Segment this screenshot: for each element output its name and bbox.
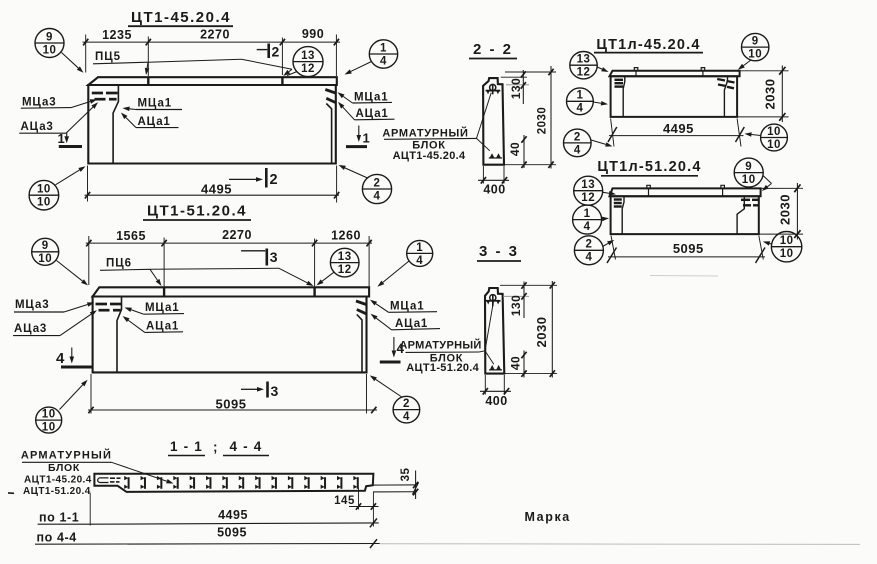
svg-text:9: 9	[745, 161, 752, 173]
svg-text:АЦТ1-45.20.4: АЦТ1-45.20.4	[24, 474, 92, 485]
svg-text:АРМАТУРНЫЙ: АРМАТУРНЫЙ	[399, 338, 481, 351]
svg-text:1 - 1: 1 - 1	[170, 439, 203, 454]
svg-text:10: 10	[42, 422, 56, 434]
svg-text:35: 35	[400, 468, 412, 482]
svg-text:АЦа1: АЦа1	[138, 116, 171, 128]
svg-text:2030: 2030	[537, 107, 549, 135]
svg-text:2: 2	[272, 44, 280, 60]
svg-text:АЦа1: АЦа1	[395, 318, 428, 330]
svg-text:4: 4	[585, 252, 592, 264]
svg-text:АЦа1: АЦа1	[146, 321, 179, 333]
svg-text:40: 40	[509, 356, 523, 370]
svg-text:2: 2	[574, 131, 581, 143]
svg-text:4: 4	[574, 144, 581, 156]
svg-text:4: 4	[584, 221, 591, 233]
svg-text:12: 12	[338, 264, 352, 276]
svg-text:1: 1	[584, 208, 591, 220]
svg-text:13: 13	[338, 251, 352, 263]
svg-text:400: 400	[485, 394, 507, 408]
svg-text:4495: 4495	[663, 121, 694, 136]
svg-text:9: 9	[46, 31, 53, 43]
svg-text:АЦТ1-51.20.4: АЦТ1-51.20.4	[23, 486, 91, 497]
svg-text:990: 990	[302, 27, 324, 41]
svg-text:1565: 1565	[116, 229, 146, 243]
svg-text:АЦТ1-45.20.4: АЦТ1-45.20.4	[393, 150, 466, 162]
svg-text:12: 12	[577, 67, 591, 79]
svg-text:10: 10	[742, 174, 756, 186]
svg-text:12: 12	[581, 192, 595, 204]
svg-text:ЦТ1-45.20.4: ЦТ1-45.20.4	[131, 9, 231, 26]
svg-text:3: 3	[271, 383, 279, 399]
svg-text:4495: 4495	[218, 508, 248, 522]
svg-text:4: 4	[380, 55, 387, 67]
svg-text:2 - 2: 2 - 2	[473, 41, 513, 58]
svg-text:по 4-4: по 4-4	[37, 530, 77, 544]
svg-text:10: 10	[43, 44, 57, 56]
svg-text:10: 10	[42, 409, 56, 421]
svg-text:400: 400	[483, 182, 505, 196]
svg-text:5095: 5095	[217, 526, 247, 540]
svg-text:3 - 3: 3 - 3	[479, 243, 519, 260]
svg-text:5095: 5095	[673, 241, 704, 256]
svg-text:40: 40	[508, 142, 522, 156]
svg-text:1: 1	[58, 131, 66, 146]
svg-text:4: 4	[403, 411, 410, 423]
svg-text:13: 13	[301, 50, 315, 62]
svg-text:1: 1	[363, 131, 371, 146]
svg-text:13: 13	[577, 54, 591, 66]
svg-text:13: 13	[581, 179, 595, 191]
svg-text:2270: 2270	[200, 27, 230, 41]
svg-text:10: 10	[767, 139, 781, 151]
svg-text:АЦа3: АЦа3	[14, 323, 47, 335]
svg-text:1: 1	[576, 90, 583, 102]
svg-text:;: ;	[213, 440, 218, 455]
svg-text:145: 145	[334, 495, 355, 507]
svg-text:МЦа1: МЦа1	[390, 301, 424, 313]
svg-text:4: 4	[576, 103, 583, 115]
svg-text:4: 4	[374, 190, 381, 202]
svg-text:2030: 2030	[778, 194, 793, 225]
svg-text:ЦТ1л-51.20.4: ЦТ1л-51.20.4	[597, 159, 701, 175]
svg-text:10: 10	[38, 253, 52, 265]
svg-text:130: 130	[509, 78, 523, 100]
svg-text:130: 130	[509, 295, 523, 317]
svg-text:10: 10	[748, 49, 762, 61]
svg-text:2030: 2030	[534, 317, 549, 348]
svg-text:1: 1	[416, 242, 423, 254]
svg-text:2: 2	[585, 239, 592, 251]
svg-text:АЦТ1-51.20.4: АЦТ1-51.20.4	[406, 362, 479, 374]
svg-text:АЦа1: АЦа1	[356, 108, 389, 120]
svg-text:ПЦ6: ПЦ6	[106, 258, 132, 270]
svg-text:по 1-1: по 1-1	[39, 510, 79, 524]
svg-text:МЦа1: МЦа1	[145, 302, 179, 314]
svg-text:ЦТ1л-45.20.4: ЦТ1л-45.20.4	[596, 37, 700, 53]
svg-text:4: 4	[56, 350, 65, 367]
svg-text:10: 10	[780, 248, 794, 260]
svg-text:4 - 4: 4 - 4	[229, 439, 262, 454]
svg-text:9: 9	[752, 36, 759, 48]
svg-text:ЦТ1-51.20.4: ЦТ1-51.20.4	[147, 203, 247, 220]
svg-text:МЦа1: МЦа1	[138, 98, 172, 110]
svg-text:БЛОК: БЛОК	[48, 462, 80, 474]
svg-text:5095: 5095	[216, 396, 247, 411]
svg-text:1: 1	[380, 42, 387, 54]
svg-text:1260: 1260	[331, 229, 361, 243]
svg-text:10: 10	[767, 126, 781, 138]
svg-text:МЦа1: МЦа1	[354, 91, 388, 103]
svg-text:ПЦ5: ПЦ5	[95, 51, 121, 63]
svg-text:10: 10	[37, 197, 51, 209]
svg-text:2: 2	[374, 177, 381, 189]
svg-text:2270: 2270	[222, 228, 252, 242]
svg-text:МЦа3: МЦа3	[22, 97, 56, 109]
svg-text:2030: 2030	[763, 79, 778, 110]
svg-text:10: 10	[37, 184, 51, 196]
svg-text:Марка: Марка	[525, 510, 571, 524]
svg-text:4495: 4495	[201, 182, 232, 197]
svg-text:10: 10	[780, 235, 794, 247]
svg-text:9: 9	[42, 240, 49, 252]
svg-text:АРМАТУРНЫЙ: АРМАТУРНЫЙ	[21, 448, 112, 461]
svg-text:МЦа3: МЦа3	[15, 299, 49, 311]
svg-text:АРМАТУРНЫЙ: АРМАТУРНЫЙ	[382, 127, 468, 140]
svg-text:4: 4	[416, 255, 423, 267]
svg-text:12: 12	[301, 63, 315, 75]
svg-text:2: 2	[270, 172, 279, 188]
svg-text:АЦа3: АЦа3	[21, 121, 54, 133]
svg-text:1235: 1235	[102, 28, 132, 42]
svg-text:2: 2	[403, 398, 410, 410]
svg-text:3: 3	[270, 249, 278, 265]
